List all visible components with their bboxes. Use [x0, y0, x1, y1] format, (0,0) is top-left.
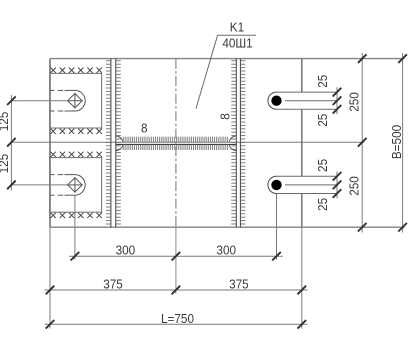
svg-text:375: 375 [229, 277, 249, 291]
svg-text:25: 25 [316, 74, 330, 87]
svg-text:25: 25 [316, 159, 330, 172]
svg-text:250: 250 [347, 176, 361, 196]
svg-text:25: 25 [316, 198, 330, 211]
svg-text:B=500: B=500 [389, 125, 403, 160]
svg-text:300: 300 [216, 243, 236, 257]
svg-text:250: 250 [347, 92, 361, 112]
svg-text:8: 8 [141, 121, 148, 135]
svg-text:125: 125 [0, 111, 11, 131]
svg-text:300: 300 [116, 243, 136, 257]
svg-text:L=750: L=750 [161, 312, 194, 326]
svg-text:375: 375 [103, 277, 123, 291]
svg-text:K1: K1 [230, 20, 245, 34]
svg-text:8: 8 [218, 113, 232, 120]
svg-text:125: 125 [0, 154, 11, 174]
svg-text:25: 25 [316, 113, 330, 126]
svg-text:40Ш1: 40Ш1 [222, 36, 253, 50]
